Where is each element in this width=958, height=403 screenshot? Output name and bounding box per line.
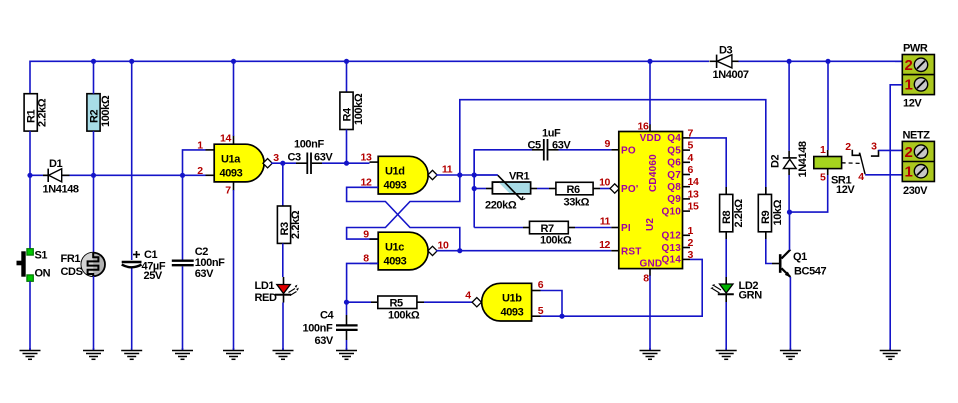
- photoresistor FR1: [61, 175, 105, 350]
- wire: R9 bottom to Q1 base: [766, 239, 772, 264]
- svg-text:5: 5: [688, 140, 694, 152]
- svg-text:PO: PO: [621, 146, 636, 157]
- svg-text:3: 3: [871, 141, 877, 153]
- wire: PWR terminal 1 to ground: [890, 85, 902, 350]
- svg-text:U1d: U1d: [385, 166, 405, 178]
- wire: contact 3 to NETZ terminal 2: [879, 149, 903, 151]
- junction dot: rail / R2: [91, 59, 96, 64]
- svg-text:15: 15: [688, 201, 699, 213]
- svg-text:6: 6: [688, 164, 694, 176]
- svg-text:R7: R7: [541, 223, 555, 235]
- capacitor C3: [288, 139, 334, 175]
- capacitor C2: [172, 246, 225, 280]
- wire: D1 row (S1/FR1 node to U1a pin 2): [30, 174, 206, 176]
- wire: U1d output to junction: [436, 174, 498, 176]
- wire: +12V top rail: [30, 61, 902, 93]
- wire: U1a pin 14 to rail: [233, 61, 235, 136]
- svg-text:VDD: VDD: [640, 133, 662, 144]
- junction dot: D1 row / S1-R1: [27, 173, 32, 178]
- svg-text:11: 11: [600, 216, 611, 228]
- svg-text:63V: 63V: [314, 152, 333, 164]
- svg-text:2.2kΩ: 2.2kΩ: [37, 98, 49, 127]
- wire: U2 GND to ground: [649, 276, 651, 351]
- svg-text:NETZ: NETZ: [903, 130, 931, 142]
- svg-text:R4: R4: [341, 107, 353, 122]
- svg-text:U1b: U1b: [502, 293, 522, 305]
- svg-text:R3: R3: [279, 222, 291, 236]
- svg-text:1: 1: [688, 225, 694, 237]
- svg-text:8: 8: [643, 273, 649, 285]
- potentiometer VR1: [485, 171, 537, 212]
- svg-text:1: 1: [905, 164, 913, 181]
- svg-text:63V: 63V: [315, 335, 334, 347]
- svg-text:U2: U2: [645, 218, 656, 231]
- LED LD2 GRN: [712, 239, 763, 350]
- svg-text:4: 4: [688, 152, 694, 164]
- resistor R7: [523, 221, 611, 246]
- svg-text:GND: GND: [640, 259, 663, 270]
- svg-text:100kΩ: 100kΩ: [540, 235, 572, 247]
- transistor Q1 BC547: [772, 250, 827, 278]
- diode D2: [770, 61, 810, 212]
- junction dot: rail / D2: [787, 59, 792, 64]
- svg-text:9: 9: [605, 138, 611, 150]
- wire: C5 branch from U1d output column: [474, 150, 532, 175]
- op-amp U1d (NAND gate 4093): [370, 156, 438, 194]
- junction dot: rail / U1a pin 14: [231, 59, 236, 64]
- svg-text:U1a: U1a: [221, 154, 241, 166]
- svg-text:Q8: Q8: [667, 182, 681, 193]
- diode D3: [709, 45, 749, 82]
- svg-text:PI: PI: [621, 223, 631, 234]
- wire: U1a pin 1 from C2 column: [183, 150, 206, 175]
- svg-text:2: 2: [905, 144, 913, 161]
- svg-text:S1: S1: [35, 249, 48, 261]
- wire: U2 Q4 to R8: [690, 138, 726, 187]
- svg-text:100kΩ: 100kΩ: [100, 95, 112, 127]
- ground: under LD1: [273, 348, 294, 359]
- wire: latch cross-coupling U1d.11 to U1c.9: [347, 175, 460, 239]
- svg-text:7: 7: [225, 185, 231, 197]
- svg-text:FR1: FR1: [61, 253, 81, 265]
- svg-text:25V: 25V: [144, 270, 163, 282]
- svg-text:100nF: 100nF: [303, 323, 333, 335]
- svg-text:10kΩ: 10kΩ: [772, 199, 784, 225]
- svg-text:9: 9: [363, 229, 369, 241]
- ground: under Q1: [780, 348, 801, 359]
- wire: contact 4 to NETZ terminal 1: [865, 174, 902, 176]
- svg-text:1N4148: 1N4148: [797, 141, 809, 177]
- svg-text:D3: D3: [719, 45, 733, 57]
- svg-text:Q12: Q12: [661, 231, 681, 242]
- svg-text:Q4: Q4: [667, 133, 681, 144]
- svg-text:14: 14: [688, 176, 699, 188]
- relay SR1 coil: [790, 61, 861, 212]
- svg-text:3: 3: [273, 152, 279, 164]
- svg-text:CD4060: CD4060: [648, 154, 659, 192]
- svg-text:Q7: Q7: [667, 170, 681, 181]
- svg-text:5: 5: [538, 305, 544, 317]
- ground: under C1: [121, 348, 142, 359]
- svg-text:LD1: LD1: [255, 280, 275, 292]
- junction dot: U1d out / C5-VR1-R7 column: [472, 172, 477, 177]
- svg-text:13: 13: [688, 188, 699, 200]
- ground: under FR1: [83, 348, 104, 359]
- svg-text:Q5: Q5: [667, 145, 681, 156]
- svg-text:4093: 4093: [220, 168, 243, 180]
- junction dot: U1b pin5/6 tie: [559, 314, 564, 319]
- svg-text:63V: 63V: [195, 268, 214, 280]
- capacitor C1 (electrolytic): [122, 249, 166, 282]
- svg-text:ON: ON: [35, 267, 51, 279]
- capacitor C5: [528, 128, 572, 161]
- resistor R4: [340, 61, 365, 163]
- svg-text:5: 5: [820, 172, 826, 184]
- svg-text:1: 1: [905, 77, 913, 94]
- ground: under S1: [20, 348, 41, 359]
- junction dot: rail / R4: [344, 59, 349, 64]
- svg-text:12: 12: [599, 239, 610, 251]
- svg-text:C4: C4: [320, 310, 335, 322]
- svg-text:Q10: Q10: [661, 206, 681, 217]
- svg-text:220kΩ: 220kΩ: [485, 200, 517, 212]
- wire: U1c pin 8 to R5/C4 node: [347, 263, 379, 302]
- wire: top rail stub into PWR terminal 2: [895, 60, 902, 62]
- svg-text:VR1: VR1: [509, 171, 529, 183]
- junction dot: U1c out / latch: [457, 248, 462, 253]
- svg-text:1: 1: [197, 140, 203, 152]
- op-amp U1a (NAND gate 4093): [206, 136, 273, 191]
- IC U2 CD4060: [611, 124, 690, 276]
- svg-text:RST: RST: [621, 247, 642, 258]
- ground: under C2: [172, 348, 193, 359]
- svg-text:U1c: U1c: [385, 242, 404, 254]
- resistor R1: [24, 94, 48, 131]
- svg-text:230V: 230V: [903, 185, 928, 197]
- wire: R1 bottom to D1 node: [29, 131, 31, 175]
- svg-text:PO': PO': [621, 184, 638, 195]
- resistor R5: [347, 296, 474, 322]
- resistor R2: [87, 94, 112, 131]
- svg-text:11: 11: [442, 164, 453, 176]
- svg-text:6: 6: [538, 279, 544, 291]
- svg-text:R2: R2: [88, 109, 100, 123]
- svg-text:C1: C1: [144, 249, 158, 261]
- svg-text:4: 4: [858, 171, 864, 183]
- op-amp U1b (NAND gate 4093, mirrored): [472, 283, 540, 321]
- wire: C3 to U1d pin 13 node: [322, 162, 370, 164]
- ground: under LD2: [716, 348, 737, 359]
- svg-text:R8: R8: [721, 210, 733, 224]
- svg-text:2: 2: [905, 57, 913, 74]
- svg-text:12V: 12V: [903, 98, 922, 110]
- op-amp U1c (NAND gate 4093): [370, 232, 438, 270]
- wire: U1b pins 5/6 to U2 Q14: [541, 259, 703, 316]
- svg-text:PWR: PWR: [903, 43, 928, 55]
- svg-text:2: 2: [688, 237, 694, 249]
- svg-text:1uF: 1uF: [542, 128, 561, 140]
- wire: C5 to U2 PO pin 9: [559, 149, 612, 151]
- junction dot: column / VR1 row: [472, 186, 477, 191]
- svg-text:C3: C3: [288, 152, 302, 164]
- svg-text:BC547: BC547: [794, 266, 827, 278]
- resistor R6: [537, 182, 611, 208]
- resistor R3: [277, 163, 302, 243]
- relay SR1 contact: [852, 150, 878, 175]
- svg-text:C5: C5: [528, 140, 542, 152]
- pin bubble: U2 PO': [610, 184, 619, 193]
- svg-text:12V: 12V: [836, 184, 855, 196]
- svg-text:Q9: Q9: [667, 194, 681, 205]
- wire: R7 row from column: [474, 227, 523, 229]
- svg-text:16: 16: [638, 121, 649, 133]
- junction dot: rail / C1: [129, 59, 134, 64]
- svg-text:R9: R9: [760, 210, 772, 224]
- svg-text:4093: 4093: [384, 256, 407, 268]
- capacitor C4: [303, 302, 358, 350]
- junction dot: D1 row / FR1-R2: [91, 173, 96, 178]
- resistor R8: [720, 187, 745, 239]
- junction dot: U1d out / feedback: [457, 172, 462, 177]
- svg-text:2.2kΩ: 2.2kΩ: [733, 199, 745, 228]
- svg-text:10: 10: [599, 177, 610, 189]
- wire: C1 column from rail to ground: [131, 61, 133, 260]
- switch S1: [17, 175, 51, 350]
- svg-text:R6: R6: [567, 184, 581, 196]
- svg-text:1N4007: 1N4007: [713, 69, 749, 81]
- resistor R9: [758, 187, 784, 239]
- junction dot: rail / U2 VDD: [647, 59, 652, 64]
- wire: U1a output to C3: [271, 162, 296, 164]
- svg-text:33kΩ: 33kΩ: [564, 197, 590, 209]
- junction dot: R5 / U1c.8 / C4: [344, 300, 349, 305]
- svg-text:4093: 4093: [501, 307, 524, 319]
- svg-text:1: 1: [820, 144, 826, 156]
- wire: U1b pin 6 loop to pin 5: [541, 291, 563, 317]
- svg-text:2: 2: [845, 141, 851, 153]
- svg-text:Q14: Q14: [661, 255, 681, 266]
- wire: latch cross-coupling U1d.12 to U1c.10: [347, 187, 460, 250]
- svg-text:R5: R5: [390, 298, 404, 310]
- junction dot: Q1 collector / relay / D2: [787, 210, 792, 215]
- svg-text:Q13: Q13: [661, 243, 681, 254]
- ground: under C4: [336, 348, 357, 359]
- junction dot: C3 / R4: [344, 161, 349, 166]
- svg-text:Q1: Q1: [793, 251, 807, 263]
- terminal block NETZ: [902, 130, 934, 198]
- wire: R2 bottom to D1 node: [93, 131, 95, 175]
- svg-text:4093: 4093: [384, 180, 407, 192]
- wire: VR1 row: [474, 188, 486, 190]
- ground: under U1a pin 7: [223, 348, 244, 359]
- wire: C2 column down: [182, 175, 184, 259]
- svg-text:2: 2: [197, 165, 203, 177]
- terminal block PWR: [902, 43, 934, 110]
- svg-text:100kΩ: 100kΩ: [388, 310, 420, 322]
- LED LD1 RED: [255, 243, 299, 350]
- junction dot: D1 row / C2 column: [180, 173, 185, 178]
- wire: R2 top to rail: [93, 61, 95, 93]
- junction dot: U1a out / R3: [280, 161, 285, 166]
- junction dot: rail / SR1 coil: [825, 59, 830, 64]
- svg-text:Q6: Q6: [667, 158, 681, 169]
- svg-text:GRN: GRN: [739, 290, 763, 302]
- svg-text:100nF: 100nF: [294, 139, 324, 151]
- wire: VR1 wiper feed column: [474, 174, 498, 176]
- wire: U2 VDD to rail: [649, 61, 651, 124]
- svg-text:D2: D2: [770, 154, 782, 168]
- svg-text:4: 4: [465, 290, 471, 302]
- svg-text:10: 10: [438, 240, 449, 252]
- svg-text:100kΩ: 100kΩ: [353, 93, 365, 125]
- svg-text:1N4148: 1N4148: [43, 184, 79, 196]
- wire: U1a pin 7 to ground: [233, 190, 235, 350]
- wire: U1c output to U2 RST: [436, 250, 611, 252]
- svg-text:3: 3: [688, 249, 694, 261]
- wire: U1d out up and across to R9 (relay driver): [460, 100, 766, 194]
- svg-text:13: 13: [361, 152, 372, 164]
- svg-text:14: 14: [220, 133, 231, 145]
- wire: Q1 emitter to ground: [789, 277, 791, 350]
- svg-text:D1: D1: [49, 158, 63, 170]
- svg-text:RED: RED: [255, 292, 277, 304]
- svg-text:2.2kΩ: 2.2kΩ: [290, 210, 302, 239]
- ground: under PWR 1: [880, 348, 901, 359]
- ground: under U2 GND: [640, 348, 661, 359]
- svg-text:CDS: CDS: [61, 266, 83, 278]
- diode D1: [43, 158, 79, 196]
- wire: Q1 collector from relay node: [789, 212, 791, 250]
